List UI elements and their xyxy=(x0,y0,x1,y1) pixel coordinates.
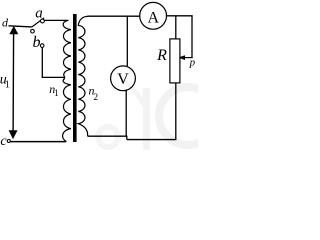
svg-text:1: 1 xyxy=(5,80,10,91)
wiper wire xyxy=(185,57,193,59)
wire bottom right to resistor xyxy=(127,139,177,141)
voltage arrow u1 (down head) xyxy=(9,130,18,139)
terminal b circle xyxy=(40,44,44,48)
svg-text:2: 2 xyxy=(93,92,98,102)
wire ammeter to top-right corner xyxy=(167,15,193,17)
wire secondary top to ammeter xyxy=(88,15,140,17)
svg-text:A: A xyxy=(148,9,160,26)
wiper arrow head xyxy=(178,55,185,60)
primary winding upper section xyxy=(63,20,71,77)
contact a circle xyxy=(41,19,45,23)
contact b circle xyxy=(31,29,35,33)
svg-text:b: b xyxy=(33,34,41,51)
wire c to primary bottom xyxy=(11,141,67,143)
svg-text:1: 1 xyxy=(54,88,59,98)
svg-text:R: R xyxy=(156,47,167,64)
svg-text:p: p xyxy=(189,57,196,69)
svg-text:d: d xyxy=(2,16,9,30)
voltmeter V circle xyxy=(111,66,136,91)
wire d to switch pivot xyxy=(9,26,32,27)
wire b to primary tap xyxy=(42,47,65,77)
voltage arrow u1 shaft xyxy=(12,31,15,133)
wire a to primary top xyxy=(44,19,68,21)
wire junction step xyxy=(126,136,128,140)
voltage arrow u1 (up head) xyxy=(9,26,18,34)
wire secondary bottom xyxy=(88,135,128,137)
voltmeter branch bottom wire xyxy=(125,90,127,136)
resistor top lead xyxy=(175,16,177,39)
svg-text:V: V xyxy=(117,71,129,88)
ammeter A circle xyxy=(140,2,167,29)
terminal c circle xyxy=(7,140,10,143)
svg-text:a: a xyxy=(35,5,43,21)
voltmeter branch top wire xyxy=(126,16,128,66)
switch arm xyxy=(32,18,44,27)
watermark xyxy=(98,80,217,150)
primary winding lower section xyxy=(63,78,71,141)
transformer core xyxy=(73,14,77,142)
wire right edge down to wiper xyxy=(191,16,193,58)
resistor bottom lead xyxy=(175,83,177,140)
secondary winding xyxy=(78,16,88,136)
resistor R body xyxy=(170,39,180,83)
svg-text:c: c xyxy=(0,134,7,149)
